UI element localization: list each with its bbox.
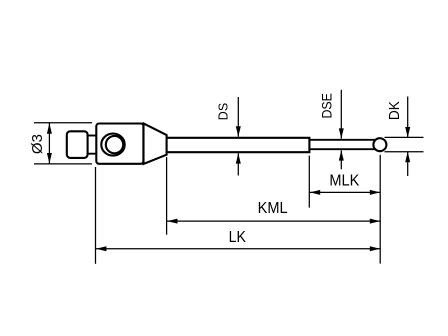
svg-text:DK: DK	[387, 101, 403, 120]
stylus thread stud M3	[67, 131, 88, 158]
stylus neck between thread and body	[88, 136, 97, 154]
label DS	[217, 103, 231, 120]
label MLK	[329, 173, 359, 190]
svg-text:Ø3: Ø3	[29, 134, 46, 154]
stem tip section DSE	[309, 140, 377, 149]
label KML	[258, 200, 288, 217]
dimension LK line and arrows	[96, 246, 381, 251]
label DK	[387, 101, 403, 120]
dimension DK upper leader	[405, 97, 410, 138]
dimension Ø3 extension lines	[34, 123, 92, 164]
svg-text:DSE: DSE	[318, 93, 334, 119]
ball tip DK	[373, 138, 386, 151]
body hole circle	[106, 136, 123, 153]
dimension MLK line and arrows	[309, 190, 380, 195]
body hole ellipse	[101, 134, 124, 156]
label Ø3	[29, 134, 46, 154]
dimension DS lower leader	[236, 153, 241, 175]
dimension DS upper leader	[236, 97, 241, 137]
ball tangent extension lines DK	[385, 137, 424, 151]
dimension KML line and arrows	[167, 219, 381, 224]
dimension DK lower leader	[405, 152, 410, 176]
label LK	[229, 229, 247, 246]
extension line at stem step	[308, 156, 310, 208]
svg-text:MLK: MLK	[329, 173, 359, 190]
stem DS	[167, 138, 310, 152]
extension line at cone end	[166, 157, 168, 235]
cone taper	[144, 123, 167, 164]
svg-text:LK: LK	[229, 229, 247, 246]
svg-text:DS: DS	[217, 103, 231, 120]
svg-text:KML: KML	[258, 200, 288, 217]
extension line at body face	[95, 167, 97, 264]
extension line at ball center	[379, 155, 381, 264]
stylus body	[96, 124, 143, 164]
dimension DSE upper leader	[339, 90, 344, 139]
label DSE	[318, 93, 334, 119]
dimension DSE lower leader	[339, 150, 344, 169]
dimension Ø3 line and arrows	[47, 123, 52, 164]
